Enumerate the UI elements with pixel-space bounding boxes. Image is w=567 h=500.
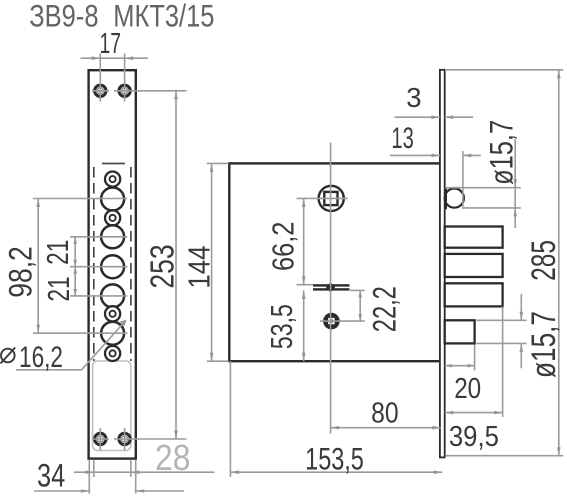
dimension 21 21: [74, 237, 76, 296]
centerline: [330, 143, 332, 434]
small hole ring 2: [105, 210, 120, 225]
svg-text:98,2: 98,2: [2, 246, 38, 298]
extension line top screw row: [92, 90, 109, 92]
svg-text:ЗВ9-8: ЗВ9-8: [29, 0, 98, 34]
extension line bottom screw row: [92, 438, 109, 440]
cylinder circle: [445, 189, 464, 208]
dimension 285: [558, 70, 560, 456]
dimension 80: [331, 427, 441, 429]
small hole ring 4: [105, 346, 120, 361]
latch bolt: [445, 320, 475, 343]
svg-text:253: 253: [143, 244, 180, 288]
small hole ring 1: [105, 172, 120, 187]
dimension 39,5: [445, 412, 503, 414]
large hole 4: [101, 284, 124, 307]
deadbolt pin 1: [445, 227, 503, 248]
dimension 144: [211, 163, 213, 361]
keyhole hub: [323, 313, 340, 330]
svg-text:МКТ3/15: МКТ3/15: [113, 0, 214, 34]
handle spindle hub: [319, 186, 344, 211]
svg-text:16,2: 16,2: [19, 341, 63, 374]
extension line hole row 2: [70, 236, 127, 238]
svg-text:20: 20: [454, 373, 481, 405]
dimension 20: [445, 365, 475, 367]
screw hole bottom-right: [119, 433, 130, 444]
large hole 5: [101, 322, 124, 345]
extension line hole row 4: [70, 295, 127, 297]
leader Ø16,2: [16, 369, 82, 371]
dimension 98,2: [37, 199, 39, 334]
dimension Ø15,7 top: [514, 139, 516, 228]
svg-text:39,5: 39,5: [449, 421, 499, 453]
dimension 53,5: [303, 290, 305, 361]
deadbolt pin 3: [445, 283, 503, 306]
svg-text:ø15,7: ø15,7: [483, 120, 519, 185]
screw hole top-right: [119, 85, 130, 96]
large hole 2: [101, 225, 124, 248]
dimension 22,2: [359, 290, 361, 321]
dimension 34: [88, 460, 90, 494]
svg-text:53,5: 53,5: [265, 304, 299, 349]
dimension 3: [395, 116, 440, 118]
extension line hole row 3: [70, 266, 127, 268]
hidden body outline (dashed): [93, 167, 95, 361]
extension lines right view: [297, 197, 348, 199]
faceplate front view: [89, 70, 136, 458]
svg-text:144: 144: [181, 246, 216, 289]
dimension 66,2: [303, 198, 305, 284]
dimension 28: [93, 460, 95, 477]
svg-text:34: 34: [37, 457, 65, 493]
svg-text:13: 13: [391, 122, 413, 155]
lock body: [229, 163, 440, 361]
dimension 13: [390, 154, 440, 156]
svg-text:22,2: 22,2: [366, 286, 402, 332]
svg-text:21: 21: [40, 240, 75, 265]
screw hole top-left: [95, 85, 106, 96]
svg-text:80: 80: [371, 397, 399, 429]
svg-text:285: 285: [525, 240, 563, 281]
small hole ring 3: [105, 306, 120, 321]
large hole 3: [101, 255, 124, 278]
svg-text:153,5: 153,5: [305, 441, 364, 477]
dimension 253: [175, 91, 177, 439]
svg-text:ø15,7: ø15,7: [525, 311, 563, 378]
guard housing outline (light): [93, 361, 131, 451]
extension line hole row 5: [33, 332, 127, 334]
label Ø16,2: [1, 349, 15, 363]
lever plate cross-section: [313, 282, 350, 292]
dimension 153,5: [230, 471, 442, 473]
deadbolt pin 2: [445, 254, 503, 277]
dimension Ø15,7 bottom: [520, 294, 522, 320]
svg-text:3: 3: [406, 82, 421, 113]
screw hole bottom-left: [95, 433, 106, 444]
screw crosshair verticals: [99, 54, 101, 102]
svg-text:28: 28: [155, 437, 190, 478]
svg-text:66,2: 66,2: [267, 222, 301, 271]
large hole 1: [101, 188, 124, 211]
faceplate edge-on flange: [440, 70, 445, 458]
svg-text:21: 21: [41, 276, 76, 301]
extension line hole row 1: [33, 198, 127, 200]
dimension 17: [81, 57, 101, 59]
